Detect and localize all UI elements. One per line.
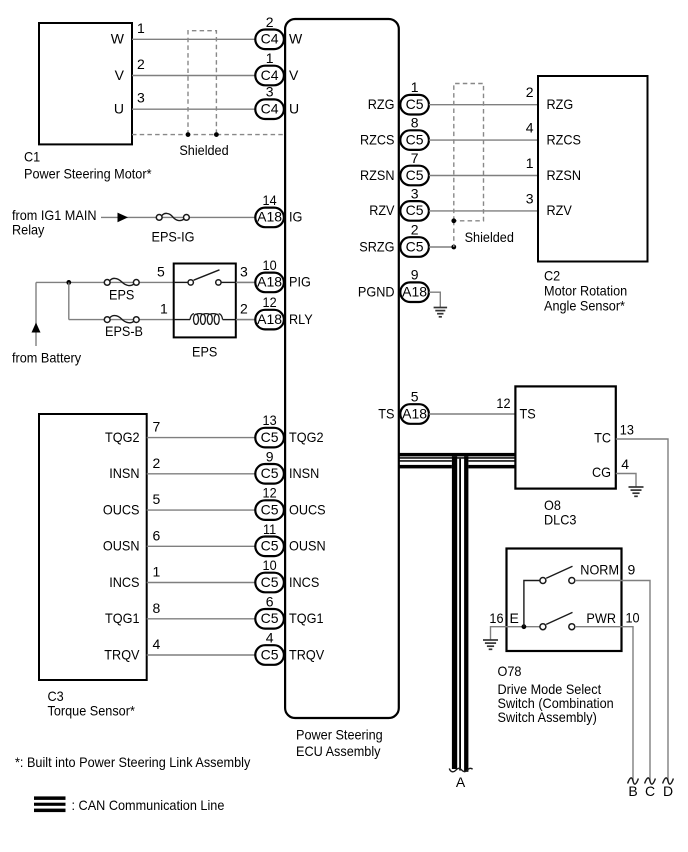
CAN bus vertical bbox=[452, 456, 469, 771]
label O78 bbox=[498, 663, 522, 679]
wire V bbox=[132, 75, 255, 77]
break C bbox=[645, 778, 656, 784]
svg-text:14: 14 bbox=[263, 192, 277, 208]
svg-text:4: 4 bbox=[526, 120, 534, 136]
connector A18 pin 10 PIG bbox=[255, 257, 284, 292]
svg-text:9: 9 bbox=[411, 267, 419, 283]
label O8 bbox=[544, 497, 561, 513]
svg-text:Power Steering: Power Steering bbox=[296, 727, 383, 743]
label Relay bbox=[12, 222, 44, 238]
svg-text:TC: TC bbox=[594, 430, 611, 446]
svg-text:RZCS: RZCS bbox=[360, 131, 395, 147]
shield junction dot 2 bbox=[214, 132, 219, 137]
svg-text:1: 1 bbox=[266, 50, 274, 66]
svg-text:C5: C5 bbox=[261, 646, 279, 662]
wire TQG2 bbox=[147, 437, 256, 439]
svg-text:5: 5 bbox=[153, 491, 161, 507]
svg-text:10: 10 bbox=[626, 610, 640, 626]
svg-text:Torque Sensor*: Torque Sensor* bbox=[48, 703, 136, 719]
C3 terminal INCS bbox=[109, 574, 139, 590]
svg-text:W: W bbox=[111, 31, 125, 47]
label EPS relay bbox=[192, 344, 217, 360]
ECU terminal TRQV bbox=[289, 646, 325, 662]
wire IG feed bbox=[101, 216, 255, 218]
svg-text:TS: TS bbox=[378, 405, 394, 421]
svg-text:E: E bbox=[510, 610, 519, 626]
svg-text:C5: C5 bbox=[406, 202, 424, 218]
svg-text:OUSN: OUSN bbox=[103, 538, 140, 554]
C3 terminal TRQV bbox=[104, 646, 140, 662]
box O78 Drive Mode Select Switch bbox=[507, 549, 622, 652]
shield dashed box motor bbox=[188, 31, 216, 135]
svg-text:TRQV: TRQV bbox=[289, 646, 325, 662]
pin 12 DLC3 TS bbox=[496, 395, 510, 411]
svg-text:C5: C5 bbox=[406, 238, 424, 254]
label C1 name bbox=[24, 166, 152, 182]
label O78 name1 bbox=[498, 681, 602, 697]
label EPS-B bbox=[105, 323, 143, 339]
svg-text:7: 7 bbox=[153, 419, 161, 435]
C3 terminal OUSN bbox=[103, 538, 140, 554]
connector C4 pin 3 bbox=[255, 84, 284, 119]
C2 terminal RZCS bbox=[547, 131, 582, 147]
label C2 bbox=[544, 268, 560, 284]
pin 4 DLC3 CG bbox=[621, 456, 629, 472]
label ECU line2 bbox=[296, 743, 381, 759]
label B bbox=[628, 783, 637, 799]
svg-text:W: W bbox=[289, 31, 303, 47]
arrow IG feed bbox=[118, 213, 129, 223]
svg-text:2: 2 bbox=[137, 56, 145, 72]
svg-text:RZCS: RZCS bbox=[547, 131, 582, 147]
svg-text:: CAN Communication Line: : CAN Communication Line bbox=[72, 797, 225, 813]
svg-text:Relay: Relay bbox=[12, 222, 44, 238]
C2 terminal RZV bbox=[547, 202, 573, 218]
svg-text:9: 9 bbox=[628, 562, 636, 578]
connector C5 pin 13 TQG2 bbox=[255, 412, 284, 447]
relay switch arm bbox=[194, 270, 220, 280]
svg-text:3: 3 bbox=[137, 90, 145, 106]
relay internal wire RLY L bbox=[174, 319, 190, 321]
svg-text:A18: A18 bbox=[257, 274, 282, 290]
svg-text:D: D bbox=[663, 783, 673, 799]
svg-text:11: 11 bbox=[263, 521, 276, 537]
svg-text:1: 1 bbox=[137, 20, 145, 36]
box C3 Torque Sensor bbox=[39, 414, 147, 680]
label Shielded sensor bbox=[465, 229, 514, 245]
svg-text:2: 2 bbox=[153, 455, 161, 471]
svg-text:INSN: INSN bbox=[109, 465, 139, 481]
label D bbox=[663, 783, 673, 799]
label C1 bbox=[24, 149, 40, 165]
svg-text:C5: C5 bbox=[406, 96, 424, 112]
switch PWR contact L bbox=[540, 624, 546, 630]
svg-text:6: 6 bbox=[266, 593, 274, 609]
svg-text:U: U bbox=[289, 101, 299, 117]
svg-text:Power Steering Motor*: Power Steering Motor* bbox=[24, 166, 152, 182]
label C2 name2 bbox=[544, 298, 625, 314]
shield dashed box sensor bbox=[454, 84, 484, 221]
wire NORM to C bbox=[575, 581, 650, 782]
svg-text:5: 5 bbox=[411, 389, 419, 405]
label C bbox=[645, 783, 655, 799]
svg-text:O78: O78 bbox=[498, 663, 522, 679]
wire relay PIG out bbox=[236, 281, 255, 283]
label EPS-IG bbox=[152, 229, 195, 245]
pin 6 C3 OUSN bbox=[153, 527, 161, 543]
svg-text:Angle Sensor*: Angle Sensor* bbox=[544, 298, 625, 314]
svg-text:4: 4 bbox=[266, 630, 274, 646]
label C3 bbox=[48, 688, 64, 704]
junction dot O78 bbox=[522, 624, 527, 629]
svg-text:A18: A18 bbox=[257, 209, 282, 225]
svg-text:B: B bbox=[628, 783, 637, 799]
shield dashed line motor bbox=[132, 134, 285, 136]
pin 3 relay out bbox=[240, 263, 248, 279]
connector C5 pin 1 RZG bbox=[400, 79, 429, 114]
ECU terminal PGND bbox=[358, 284, 395, 300]
svg-text:3: 3 bbox=[411, 185, 419, 201]
connector C5 pin 4 TRQV bbox=[255, 630, 284, 665]
svg-text:INCS: INCS bbox=[289, 574, 319, 590]
ECU terminal INCS bbox=[289, 574, 319, 590]
wire PWR to B bbox=[575, 627, 633, 782]
svg-text:INSN: INSN bbox=[289, 465, 319, 481]
svg-text:RZV: RZV bbox=[369, 202, 395, 218]
svg-text:1: 1 bbox=[160, 301, 168, 317]
svg-text:6: 6 bbox=[153, 527, 161, 543]
ECU terminal TS bbox=[378, 405, 394, 421]
svg-text:IG: IG bbox=[289, 209, 302, 225]
svg-text:2: 2 bbox=[526, 84, 534, 100]
connector C5 pin 10 INCS bbox=[255, 557, 284, 592]
svg-text:EPS-IG: EPS-IG bbox=[152, 229, 195, 245]
connector C5 pin 2 SRZG bbox=[400, 222, 429, 257]
svg-text:INCS: INCS bbox=[109, 574, 139, 590]
svg-text:C5: C5 bbox=[406, 167, 424, 183]
label Shielded motor bbox=[179, 142, 228, 158]
ECU terminal RZV bbox=[369, 202, 395, 218]
svg-text:9: 9 bbox=[266, 448, 274, 464]
switch PWR contact R bbox=[569, 624, 575, 630]
shield dashed drop bbox=[453, 221, 455, 247]
ECU terminal INSN bbox=[289, 465, 319, 481]
svg-text:C5: C5 bbox=[261, 538, 279, 554]
relay coil bbox=[190, 314, 223, 325]
pin 4 C3 TRQV bbox=[153, 636, 161, 652]
junction dot battery bbox=[66, 280, 71, 285]
pin 1 C3 INCS bbox=[153, 564, 161, 580]
ECU terminal V bbox=[289, 67, 299, 83]
ECU terminal IG bbox=[289, 209, 302, 225]
svg-text:12: 12 bbox=[263, 485, 277, 501]
svg-text:RZV: RZV bbox=[547, 202, 573, 218]
svg-text:RZSN: RZSN bbox=[360, 167, 395, 183]
ECU terminal RZSN bbox=[360, 167, 395, 183]
svg-text:Shielded: Shielded bbox=[179, 142, 228, 158]
ground E bbox=[483, 640, 498, 649]
svg-text:RZG: RZG bbox=[547, 96, 574, 112]
pin 1 relay in bbox=[160, 301, 168, 317]
connector C4 pin 1 bbox=[255, 50, 284, 85]
C2 terminal RZSN bbox=[547, 167, 582, 183]
pin 3 C1 U bbox=[137, 90, 145, 106]
ECU terminal PIG bbox=[289, 274, 311, 290]
svg-text:*: Built into Power Steering L: *: Built into Power Steering Link Assemb… bbox=[15, 754, 250, 770]
C3 terminal TQG2 bbox=[105, 429, 140, 445]
legend CAN text bbox=[72, 797, 225, 813]
ECU terminal W bbox=[289, 31, 303, 47]
switch NORM arm bbox=[546, 566, 572, 578]
fuse EPS bbox=[104, 278, 139, 285]
shield dot sensor bbox=[451, 218, 456, 223]
svg-text:A18: A18 bbox=[402, 284, 427, 300]
wire TQG1 bbox=[147, 618, 256, 620]
DLC3 terminal TC bbox=[594, 430, 611, 446]
svg-text:SRZG: SRZG bbox=[359, 238, 394, 254]
svg-text:2: 2 bbox=[240, 301, 248, 317]
shield dot SRZG bbox=[451, 245, 456, 250]
pin 5 relay in bbox=[157, 263, 165, 279]
wire RZCS bbox=[429, 139, 538, 141]
svg-text:A: A bbox=[456, 774, 466, 790]
svg-text:DLC3: DLC3 bbox=[544, 512, 577, 528]
label from IG1 MAIN bbox=[12, 207, 97, 223]
CAN bus horizontal bbox=[399, 453, 516, 469]
shield junction dot 1 bbox=[186, 132, 191, 137]
svg-text:3: 3 bbox=[266, 84, 274, 100]
ECU terminal SRZG bbox=[359, 238, 394, 254]
svg-text:RZSN: RZSN bbox=[547, 167, 582, 183]
label O78 name3 bbox=[498, 709, 597, 725]
wire relay RLY out bbox=[236, 319, 255, 321]
label DLC3 bbox=[544, 512, 577, 528]
label EPS fuse bbox=[109, 287, 134, 303]
ECU terminal OUSN bbox=[289, 538, 326, 554]
connector C5 pin 3 RZV bbox=[400, 185, 429, 220]
connector C5 pin 8 RZCS bbox=[400, 115, 429, 150]
wire battery branch down bbox=[68, 282, 70, 319]
wire RZSN bbox=[429, 175, 538, 177]
ECU terminal TQG2 bbox=[289, 429, 324, 445]
svg-text:C4: C4 bbox=[261, 101, 279, 117]
break D bbox=[663, 778, 674, 784]
wire RZV bbox=[429, 210, 538, 212]
wire INSN bbox=[147, 473, 256, 475]
C3 terminal OUCS bbox=[103, 501, 140, 517]
break B bbox=[628, 778, 639, 784]
svg-text:16: 16 bbox=[489, 610, 503, 626]
box C2 Motor Rotation Angle Sensor bbox=[538, 76, 648, 262]
CAN break A bbox=[449, 768, 472, 772]
fuse EPS-B bbox=[104, 316, 139, 323]
C3 terminal INSN bbox=[109, 465, 139, 481]
wire RZG bbox=[429, 104, 538, 106]
svg-text:5: 5 bbox=[157, 263, 165, 279]
wire PGND bbox=[429, 292, 440, 307]
svg-text:1: 1 bbox=[153, 564, 161, 580]
label C3 name bbox=[48, 703, 136, 719]
O78 terminal NORM bbox=[580, 562, 619, 578]
svg-text:NORM: NORM bbox=[580, 562, 619, 578]
svg-text:V: V bbox=[289, 67, 299, 83]
connector C5 pin 9 INSN bbox=[255, 448, 284, 483]
svg-text:TQG1: TQG1 bbox=[105, 610, 140, 626]
DLC3 terminal TS bbox=[520, 405, 536, 421]
svg-text:10: 10 bbox=[263, 257, 277, 273]
svg-text:Switch Assembly): Switch Assembly) bbox=[498, 709, 597, 725]
svg-text:EPS: EPS bbox=[109, 287, 134, 303]
connector A18 pin 12 RLY bbox=[255, 294, 284, 329]
svg-text:C5: C5 bbox=[261, 465, 279, 481]
svg-text:from Battery: from Battery bbox=[12, 350, 81, 366]
svg-text:EPS-B: EPS-B bbox=[105, 323, 143, 339]
switch NORM contact L bbox=[540, 578, 546, 584]
svg-text:8: 8 bbox=[153, 600, 161, 616]
svg-text:C4: C4 bbox=[261, 67, 279, 83]
wire CG bbox=[616, 474, 636, 488]
svg-text:OUCS: OUCS bbox=[103, 501, 140, 517]
svg-text:C2: C2 bbox=[544, 268, 560, 284]
pin 7 C3 TQG2 bbox=[153, 419, 161, 435]
label C2 name1 bbox=[544, 283, 627, 299]
ground CG bbox=[629, 487, 644, 496]
svg-text:4: 4 bbox=[621, 456, 629, 472]
svg-text:7: 7 bbox=[411, 150, 419, 166]
svg-text:U: U bbox=[114, 101, 124, 117]
svg-text:ECU Assembly: ECU Assembly bbox=[296, 743, 381, 759]
svg-text:RLY: RLY bbox=[289, 311, 313, 327]
svg-text:Shielded: Shielded bbox=[465, 229, 514, 245]
svg-text:C5: C5 bbox=[261, 429, 279, 445]
box O8 DLC3 bbox=[515, 386, 615, 488]
ECU terminal RZG bbox=[368, 96, 395, 112]
svg-text:Motor Rotation: Motor Rotation bbox=[544, 283, 627, 299]
label A bbox=[456, 774, 466, 790]
svg-text:12: 12 bbox=[496, 395, 510, 411]
relay internal wire PIG R bbox=[221, 281, 236, 283]
C1 terminal W bbox=[111, 31, 125, 47]
switch PWR arm bbox=[546, 612, 572, 624]
box Power Steering ECU Assembly bbox=[285, 19, 399, 718]
DLC3 terminal CG bbox=[592, 464, 611, 480]
wire O78 internal bbox=[524, 581, 540, 627]
relay switch contact L bbox=[188, 280, 193, 285]
svg-text:TS: TS bbox=[520, 405, 536, 421]
wire U bbox=[132, 108, 255, 110]
ECU terminal RZCS bbox=[360, 131, 395, 147]
pin 4 C2 RZCS bbox=[526, 120, 534, 136]
label ECU line1 bbox=[296, 727, 383, 743]
svg-text:4: 4 bbox=[153, 636, 161, 652]
pin 2 C3 INSN bbox=[153, 455, 161, 471]
svg-text:EPS: EPS bbox=[192, 344, 217, 360]
svg-text:PGND: PGND bbox=[358, 284, 395, 300]
svg-text:A18: A18 bbox=[402, 405, 427, 421]
svg-text:OUCS: OUCS bbox=[289, 501, 326, 517]
svg-text:C5: C5 bbox=[261, 501, 279, 517]
relay box EPS bbox=[174, 264, 236, 338]
relay switch contact R bbox=[216, 280, 221, 285]
O78 terminal E bbox=[510, 610, 519, 626]
arrow from Battery bbox=[32, 282, 41, 346]
svg-text:13: 13 bbox=[263, 412, 277, 428]
wire TRQV bbox=[147, 654, 256, 656]
pin 8 C3 TQG1 bbox=[153, 600, 161, 616]
pin 1 C1 W bbox=[137, 20, 145, 36]
connector A18 pin 5 TS bbox=[400, 389, 429, 424]
svg-text:C1: C1 bbox=[24, 149, 40, 165]
svg-text:OUSN: OUSN bbox=[289, 538, 326, 554]
connector C5 pin 7 RZSN bbox=[400, 150, 429, 185]
wire OUCS bbox=[147, 509, 256, 511]
svg-text:3: 3 bbox=[526, 190, 534, 206]
relay internal wire RLY R bbox=[223, 319, 236, 321]
legend CAN symbol bbox=[34, 796, 66, 812]
label O78 name2 bbox=[498, 695, 614, 711]
fuse EPS-IG bbox=[156, 213, 189, 220]
wire E ground bbox=[491, 627, 540, 640]
svg-text:TRQV: TRQV bbox=[104, 646, 140, 662]
wire RLY row bbox=[69, 319, 256, 321]
svg-text:C5: C5 bbox=[261, 610, 279, 626]
C3 terminal TQG1 bbox=[105, 610, 140, 626]
svg-text:TQG2: TQG2 bbox=[289, 429, 324, 445]
pin 10 PWR bbox=[626, 610, 640, 626]
label from Battery bbox=[12, 350, 81, 366]
connector C5 pin 11 OUSN bbox=[255, 521, 284, 556]
pin 9 NORM bbox=[628, 562, 636, 578]
svg-text:3: 3 bbox=[240, 263, 248, 279]
connector C5 pin 12 OUCS bbox=[255, 485, 284, 520]
C1 terminal U bbox=[114, 101, 124, 117]
ECU terminal U bbox=[289, 101, 299, 117]
svg-text:C5: C5 bbox=[406, 131, 424, 147]
footnote bbox=[15, 754, 250, 770]
C1 terminal V bbox=[115, 67, 125, 83]
svg-text:A18: A18 bbox=[257, 311, 282, 327]
O78 terminal PWR bbox=[586, 610, 616, 626]
switch NORM contact R bbox=[569, 578, 575, 584]
pin 2 relay out bbox=[240, 301, 248, 317]
svg-text:13: 13 bbox=[620, 422, 634, 438]
pin 1 C2 RZSN bbox=[526, 155, 534, 171]
connector C5 pin 6 TQG1 bbox=[255, 593, 284, 628]
pin 16 O78 E bbox=[489, 610, 503, 626]
box C1 Power Steering Motor bbox=[39, 23, 132, 144]
wire battery to PIG bbox=[36, 281, 255, 283]
wire SRZG bbox=[429, 246, 454, 248]
svg-text:TQG1: TQG1 bbox=[289, 610, 324, 626]
ECU terminal RLY bbox=[289, 311, 313, 327]
pin 13 DLC3 TC bbox=[620, 422, 634, 438]
svg-text:TQG2: TQG2 bbox=[105, 429, 140, 445]
svg-text:C5: C5 bbox=[261, 574, 279, 590]
svg-text:RZG: RZG bbox=[368, 96, 395, 112]
connector A18 pin 9 PGND bbox=[400, 267, 429, 302]
svg-text:8: 8 bbox=[411, 115, 419, 131]
wire TS bbox=[429, 413, 516, 415]
svg-text:V: V bbox=[115, 67, 125, 83]
svg-text:2: 2 bbox=[266, 14, 274, 30]
wire W bbox=[132, 38, 255, 40]
svg-text:2: 2 bbox=[411, 222, 419, 238]
connector C4 pin 2 bbox=[255, 14, 284, 49]
svg-text:PWR: PWR bbox=[586, 610, 616, 626]
connector A18 pin 14 IG bbox=[255, 192, 284, 227]
wire OUSN bbox=[147, 545, 256, 547]
pin 3 C2 RZV bbox=[526, 190, 534, 206]
